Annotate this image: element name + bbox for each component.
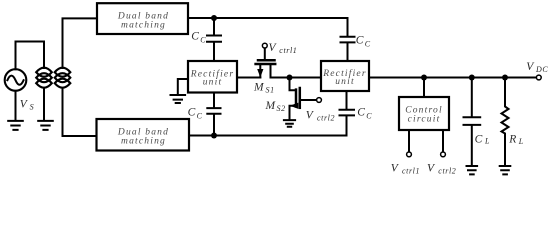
wire secondary top to top matching box [63, 18, 98, 68]
wire MS2 source to ground [290, 106, 297, 120]
node junction MS1/MS2 [287, 75, 293, 81]
node junction bottom rail [211, 133, 217, 139]
dual band matching box top [97, 3, 188, 34]
svg-text:C: C [191, 31, 199, 43]
wire rectifier-left ground stub [178, 79, 188, 94]
resistor RL [502, 78, 509, 166]
svg-text:S2: S2 [277, 104, 286, 113]
capacitor CC bottom-right [340, 91, 355, 135]
svg-text:C: C [365, 39, 371, 48]
inductor L1 primary coil [36, 68, 52, 77]
node junction top rail [211, 15, 217, 21]
rectifier unit box left [188, 61, 237, 93]
wire bottom rail [189, 135, 347, 137]
capacitor CC top-left [207, 18, 221, 61]
ground RL [500, 166, 511, 174]
svg-text:S: S [30, 103, 35, 112]
ground source [8, 121, 23, 130]
wire top rail [188, 17, 348, 19]
svg-text:matching: matching [121, 21, 166, 31]
transistor MS2 arrow [291, 103, 298, 108]
node junction CL [469, 75, 475, 81]
ground primary coil [38, 121, 53, 130]
capacitor CL [464, 78, 481, 166]
wire source bottom [15, 91, 17, 120]
wire control ctrl2 [442, 130, 444, 152]
terminal Vctrl2 bottom [441, 152, 446, 157]
svg-text:M: M [253, 82, 265, 94]
svg-text:unit: unit [335, 77, 355, 87]
control circuit box [399, 97, 449, 130]
svg-text:C: C [366, 111, 372, 120]
svg-text:C: C [188, 107, 196, 119]
wire MS2 drain [290, 78, 297, 91]
rectifier unit box right [321, 61, 369, 91]
wire output rail [369, 77, 536, 79]
capacitor CC bottom-left [207, 93, 220, 136]
ground CL [467, 166, 478, 174]
svg-text:ctrl1: ctrl1 [279, 46, 297, 55]
terminal Vctrl1 of MS1 [262, 43, 267, 48]
svg-text:unit: unit [203, 78, 223, 88]
wire primary coil bottom [43, 88, 45, 120]
svg-text:C: C [357, 107, 365, 119]
svg-text:S1: S1 [266, 85, 275, 94]
svg-text:M: M [265, 100, 277, 112]
ground MS2 [284, 120, 295, 127]
terminal Vctrl1 bottom [407, 152, 412, 157]
source VS sine [7, 76, 23, 85]
transistor MS2 channel and gate [295, 90, 298, 107]
svg-text:ctrl1: ctrl1 [402, 167, 420, 176]
svg-text:C: C [200, 35, 206, 44]
svg-text:circuit: circuit [408, 115, 441, 125]
node junction RL [502, 75, 508, 81]
node junction control [421, 75, 427, 81]
svg-text:matching: matching [121, 137, 166, 147]
svg-text:C: C [475, 134, 483, 146]
wire control circuit top [423, 78, 425, 98]
dual band matching box bottom [97, 119, 190, 151]
svg-text:R: R [508, 134, 516, 146]
source VS circle [5, 69, 27, 91]
capacitor CC top-right [341, 18, 355, 61]
inductor L2 secondary coil [55, 68, 71, 77]
wire control ctrl1 [408, 130, 410, 152]
svg-text:DC: DC [535, 65, 548, 74]
svg-text:C: C [356, 35, 364, 47]
svg-text:C: C [197, 111, 203, 120]
terminal VDC [536, 75, 541, 80]
transistor MS1 arrow [258, 70, 263, 77]
svg-text:L: L [484, 137, 490, 146]
wire source top to primary coil top [16, 42, 45, 70]
svg-text:ctrl2: ctrl2 [317, 114, 335, 123]
svg-text:L: L [518, 137, 524, 146]
wire MS1 to junction to rectifier-right [271, 77, 322, 79]
ground rectifier-left [171, 95, 186, 103]
svg-text:ctrl2: ctrl2 [438, 167, 456, 176]
wire rectifier-left to MS1 [237, 77, 260, 79]
terminal Vctrl2 of MS2 [317, 98, 322, 103]
wire secondary bottom to bottom matching box [63, 88, 97, 136]
transistor MS1 [260, 48, 270, 77]
